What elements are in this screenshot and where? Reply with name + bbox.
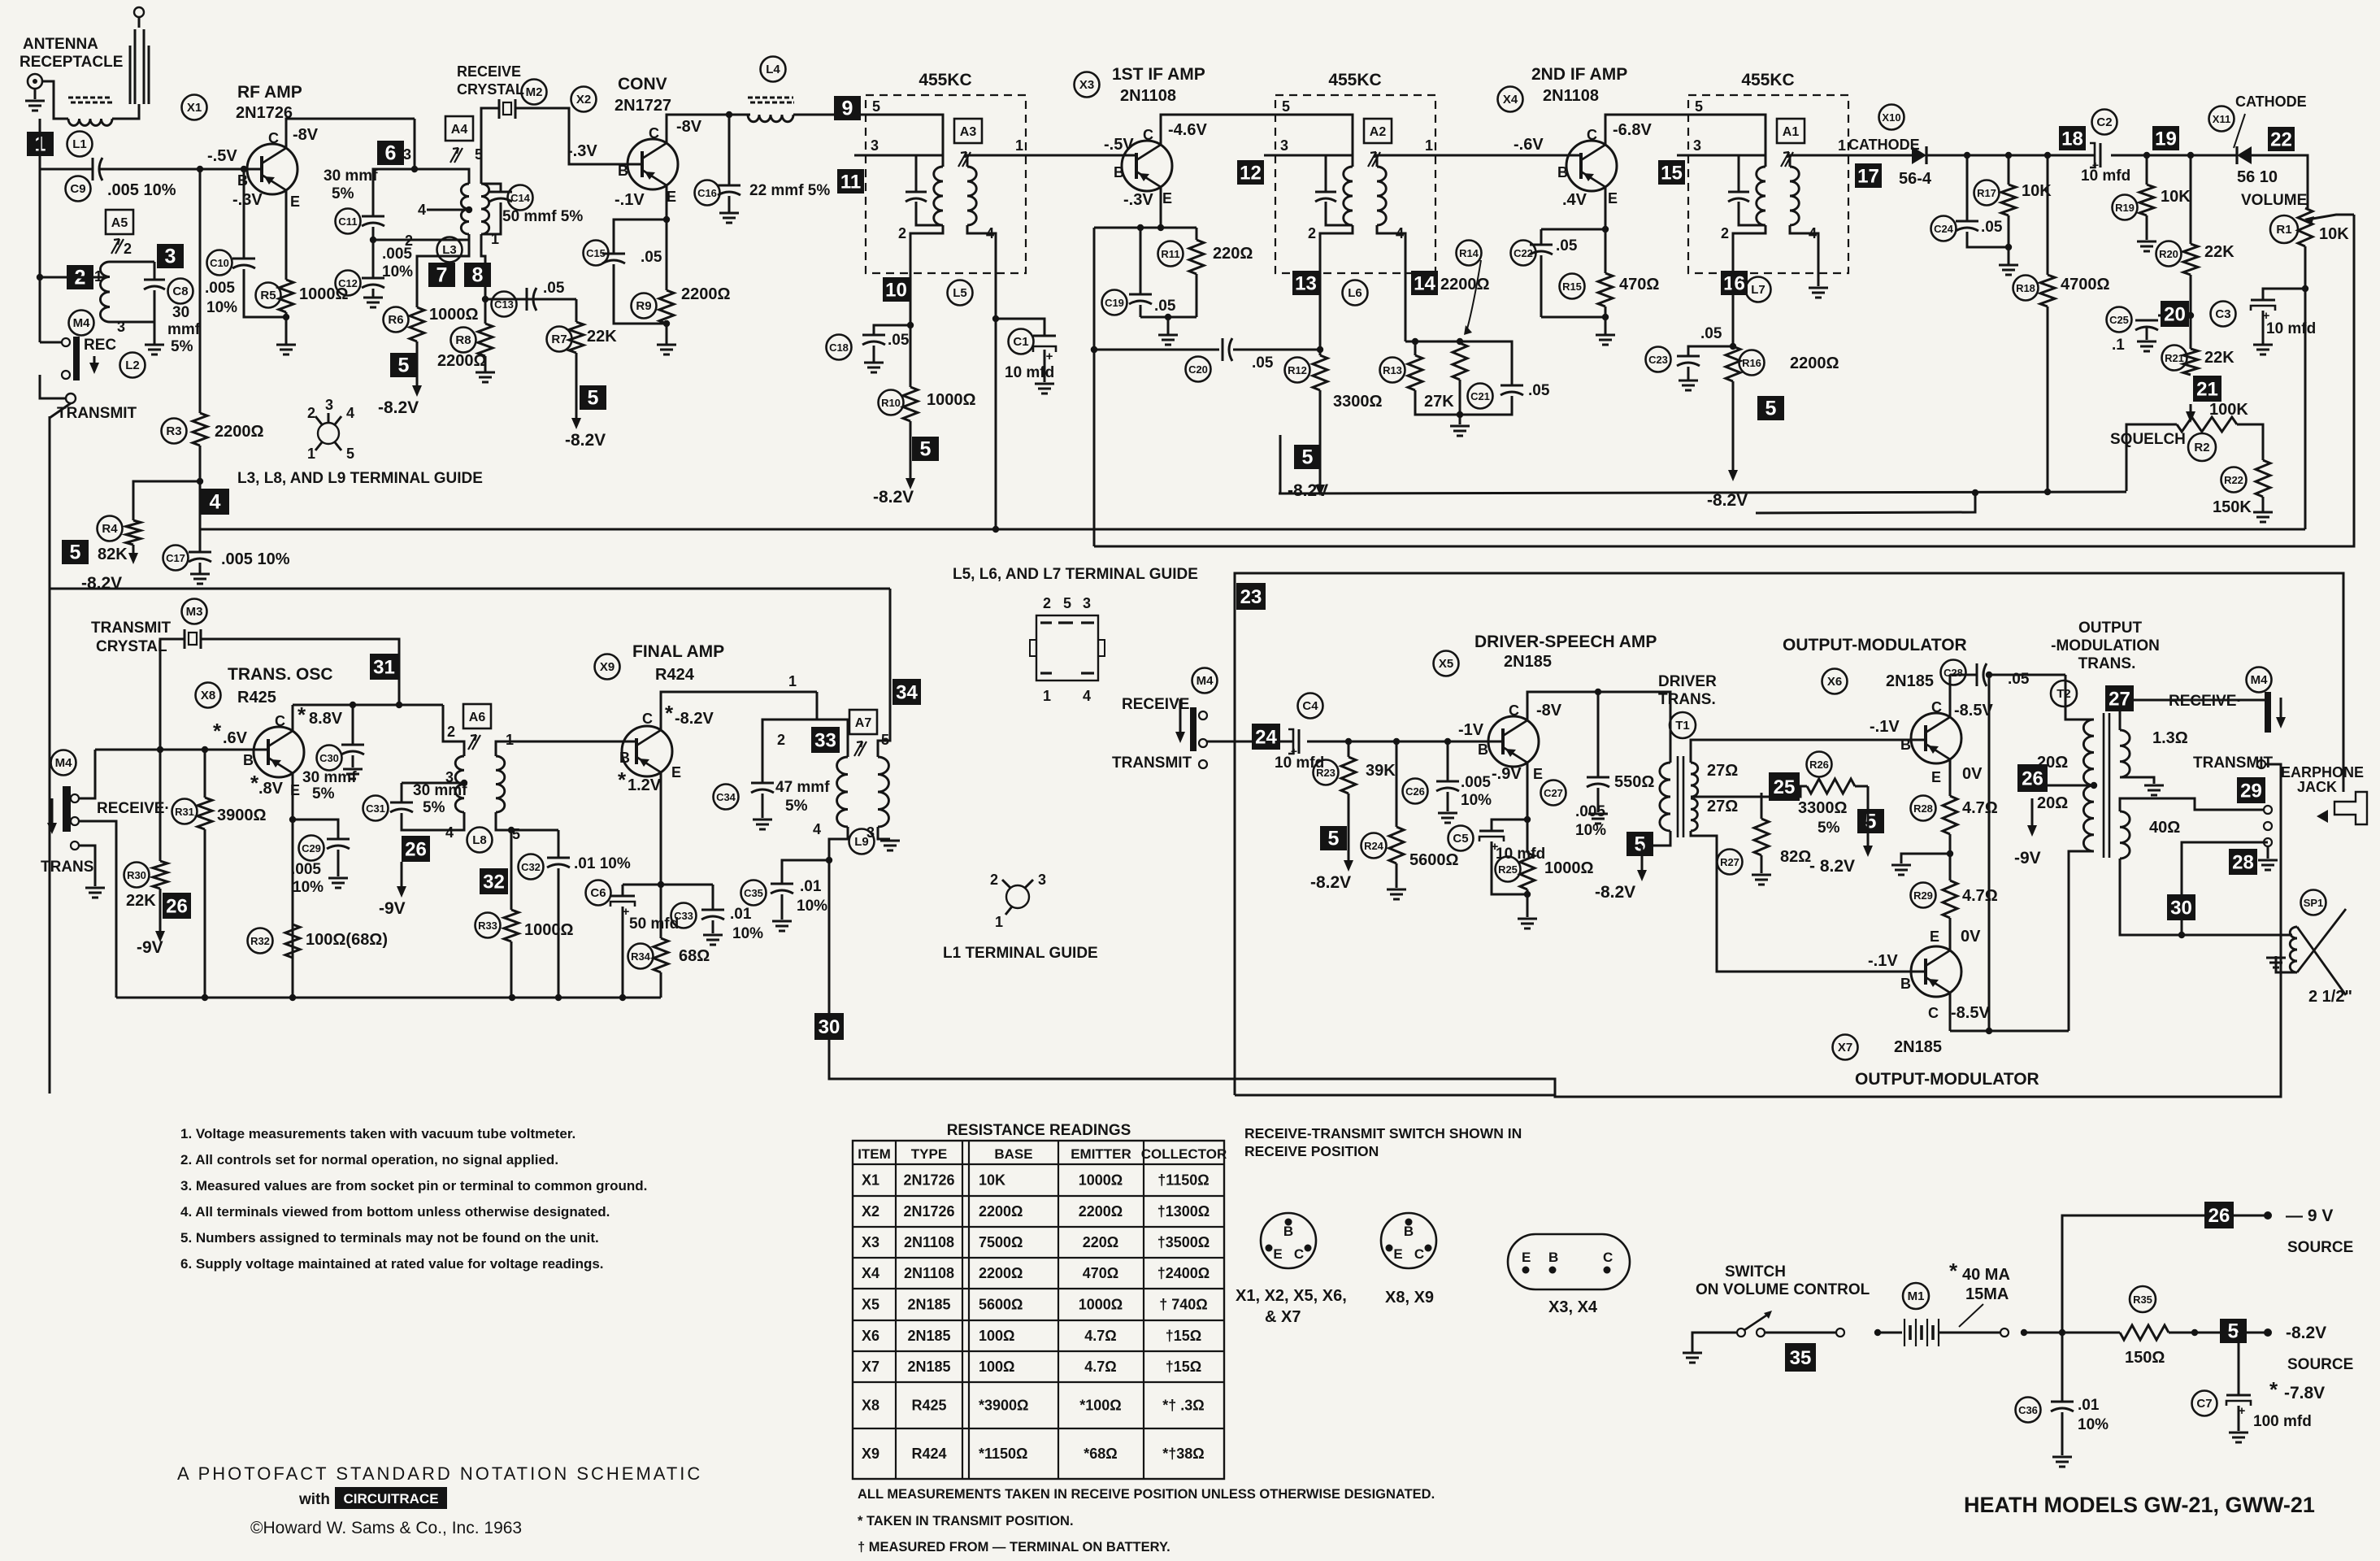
wire C11 branch <box>373 169 415 216</box>
box A4 <box>445 116 473 141</box>
wire T2 primary top <box>2065 675 2094 720</box>
ref R13 <box>1380 358 1405 383</box>
svg-text:.005: .005 <box>1575 803 1605 820</box>
ground R27 <box>1752 874 1771 876</box>
socket X3 X4 oval <box>1508 1234 1630 1289</box>
svg-text:.005: .005 <box>1461 774 1491 791</box>
wire X5 collector <box>1527 692 1670 763</box>
capacitor C2 electrolytic <box>2100 143 2102 167</box>
wire flag1 down-left bus <box>39 119 41 342</box>
wire L7 primary feed <box>1739 155 1765 167</box>
wire X3 emitter <box>1160 187 1162 228</box>
ground C18 <box>873 346 875 363</box>
svg-text:C: C <box>642 711 653 727</box>
ref C27 <box>1541 780 1566 806</box>
resistor R24 <box>1389 827 1404 863</box>
ref C30 <box>317 746 342 771</box>
svg-text:B: B <box>1404 1224 1414 1239</box>
wire X3 collector <box>1161 115 1287 145</box>
trimmer A3 <box>958 152 971 167</box>
wire R13 R14 rail <box>1405 341 1460 343</box>
svg-text:6: 6 <box>385 142 397 165</box>
wire X8 emitter <box>292 773 294 998</box>
wire L6 secondary bottom out <box>1377 225 1405 273</box>
ref C20 <box>1186 357 1211 382</box>
svg-text:R12: R12 <box>1288 364 1307 376</box>
inductor L6 secondary <box>1377 167 1386 225</box>
svg-text:L5: L5 <box>953 286 967 300</box>
ref C18 <box>827 335 852 360</box>
ref C5 <box>1448 826 1474 851</box>
wire mod box bottom <box>1235 1094 1555 1097</box>
ground C25 <box>2137 341 2156 343</box>
svg-text:22K: 22K <box>2204 243 2235 261</box>
svg-text:2: 2 <box>307 405 315 421</box>
ref L1 <box>67 132 93 157</box>
capacitor C6 electrolytic <box>622 885 624 896</box>
svg-text:18: 18 <box>2061 128 2083 150</box>
svg-text:TRANS.: TRANS. <box>2078 655 2136 672</box>
wire T2 sec2 to jack <box>2120 798 2264 811</box>
ref C3 <box>2211 302 2236 327</box>
resistor R33 <box>504 910 519 941</box>
ref X1 <box>182 95 207 120</box>
ground TRANS <box>79 846 95 886</box>
resistor R32 <box>285 924 300 958</box>
ground R19 <box>2137 241 2156 243</box>
ref R30 <box>124 863 150 888</box>
wire R9 ground <box>666 324 668 345</box>
svg-text:17: 17 <box>1857 166 1879 188</box>
ref T2 <box>2051 680 2077 707</box>
svg-text:C: C <box>1294 1246 1304 1262</box>
svg-text:-.5V: -.5V <box>1104 136 1134 154</box>
ref L5 <box>948 280 973 306</box>
svg-text:X7: X7 <box>862 1359 879 1375</box>
svg-text:1000Ω: 1000Ω <box>1079 1297 1123 1313</box>
svg-text:4: 4 <box>346 405 354 421</box>
capacitor inside L7 <box>1728 191 1749 193</box>
ref X11 <box>2209 107 2235 132</box>
resistor R25 <box>1520 853 1535 889</box>
wire L6 primary bottom out <box>1320 225 1353 273</box>
resistor R31 <box>198 798 212 829</box>
svg-text:E: E <box>290 193 300 210</box>
wire R7 <box>575 299 578 322</box>
ground R14 <box>1450 425 1470 428</box>
svg-text:39K: 39K <box>1366 762 1396 780</box>
svg-text:25: 25 <box>1774 776 1796 798</box>
wire T1 sec tap <box>1694 786 1807 797</box>
svg-text:C: C <box>1143 127 1153 143</box>
node 5 flag R23 <box>1320 826 1347 850</box>
svg-text:5: 5 <box>1765 398 1777 420</box>
svg-text:5: 5 <box>1695 98 1703 115</box>
svg-text:*: * <box>213 719 222 743</box>
wire L5 pin1 to X3 base <box>1026 154 1136 157</box>
ground X4 emitter <box>1596 334 1615 337</box>
svg-text:21: 21 <box>2196 379 2218 401</box>
ref X4 <box>1498 87 1523 112</box>
ref C21 <box>1468 384 1493 409</box>
wire L1 to mast <box>112 104 139 119</box>
svg-text:470Ω: 470Ω <box>1083 1265 1118 1281</box>
svg-text:-6.8V: -6.8V <box>1613 121 1652 139</box>
svg-text:100K: 100K <box>2209 401 2248 419</box>
wire T1 sec top to X6 base <box>1691 740 1926 763</box>
ref L2 <box>120 353 145 378</box>
resistor R35 <box>2120 1325 2169 1340</box>
svg-text:C: C <box>1931 699 1942 715</box>
svg-text:RESISTANCE READINGS: RESISTANCE READINGS <box>947 1122 1131 1139</box>
ground X3 emitter <box>1167 317 1170 335</box>
svg-text:2: 2 <box>1721 225 1729 241</box>
svg-text:.05: .05 <box>1700 325 1722 342</box>
diode X10 <box>1912 146 1926 164</box>
capacitor C4 electrolytic <box>1298 729 1301 754</box>
ref L3 <box>437 237 463 263</box>
ref C6 <box>586 881 611 906</box>
svg-text:4: 4 <box>210 491 221 514</box>
svg-text:B: B <box>1478 741 1488 758</box>
ref C29 <box>299 836 324 861</box>
inductor L7 secondary <box>1790 167 1799 225</box>
svg-text:X1: X1 <box>862 1172 879 1189</box>
wire R6 bottom <box>416 341 419 354</box>
transistor X6 <box>1911 713 1961 763</box>
wire X5 emitter <box>1527 763 1529 820</box>
svg-text:5: 5 <box>1063 595 1071 611</box>
svg-text:R20: R20 <box>2159 248 2178 260</box>
svg-text:C: C <box>1587 127 1597 143</box>
node 15 flag <box>1658 160 1685 185</box>
wire L5 primary bottom out <box>910 225 943 273</box>
svg-text:X1, X2, X5, X6,: X1, X2, X5, X6, <box>1236 1287 1347 1305</box>
ref C17 <box>163 546 189 571</box>
svg-text:E: E <box>1162 190 1172 207</box>
resistor R27 <box>1754 819 1769 855</box>
svg-text:C21: C21 <box>1470 390 1490 402</box>
wire X4 emitter <box>1605 187 1607 229</box>
resistor R7 <box>569 322 584 353</box>
box A1 <box>1777 119 1805 143</box>
transformer T2 sec bottom <box>2120 811 2130 859</box>
svg-text:SWITCH: SWITCH <box>1725 1263 1786 1281</box>
svg-text:X8: X8 <box>201 689 215 702</box>
ref L9 <box>849 829 875 854</box>
svg-text:C10: C10 <box>210 257 229 269</box>
wire battery to R35 <box>2021 1329 2027 1336</box>
svg-text:550Ω: 550Ω <box>1614 773 1654 791</box>
wire R35 to terminal <box>2169 1332 2265 1334</box>
svg-text:2ND IF AMP: 2ND IF AMP <box>1531 65 1627 84</box>
svg-text:X3: X3 <box>862 1234 879 1250</box>
resistor R8 <box>478 324 493 356</box>
svg-text:220Ω: 220Ω <box>1213 245 1253 263</box>
svg-text:.05: .05 <box>1556 237 1578 254</box>
svg-text:-4.6V: -4.6V <box>1168 121 1207 139</box>
ref C14 <box>508 185 533 211</box>
svg-text:†2400Ω: †2400Ω <box>1157 1265 1210 1281</box>
capacitor C10 <box>232 258 255 260</box>
wire C9 to base <box>100 168 262 171</box>
svg-text:RF AMP: RF AMP <box>237 83 302 102</box>
trimmer A7 <box>854 741 866 756</box>
svg-text:2N185: 2N185 <box>907 1297 950 1313</box>
svg-text:100Ω: 100Ω <box>979 1328 1014 1344</box>
svg-text:2. All controls set for norma: 2. All controls set for normal operation… <box>180 1152 558 1167</box>
wire T2 sec top out <box>2120 700 2268 730</box>
svg-text:SP1: SP1 <box>2304 897 2324 909</box>
svg-text:L2: L2 <box>125 359 140 372</box>
svg-text:2200Ω: 2200Ω <box>681 285 731 303</box>
svg-text:X3: X3 <box>1079 78 1094 92</box>
svg-text:-1V: -1V <box>1458 721 1484 739</box>
transformer T2 sec top <box>2120 730 2130 777</box>
capacitor C27 <box>1597 692 1600 777</box>
svg-text:2: 2 <box>990 872 998 888</box>
svg-text:C29: C29 <box>302 842 321 854</box>
svg-text:RECEIVE·: RECEIVE· <box>2169 693 2242 710</box>
capacitor C33 <box>712 885 714 910</box>
svg-text:C20: C20 <box>1188 363 1208 376</box>
svg-text:10%: 10% <box>797 898 827 915</box>
node 30 flag <box>814 1013 844 1040</box>
wire R3 to junction <box>199 446 202 551</box>
svg-text:C13: C13 <box>494 298 514 311</box>
svg-text:E: E <box>1608 190 1618 207</box>
svg-text:X9: X9 <box>600 660 615 674</box>
wire R26 right <box>1855 785 1868 788</box>
svg-text:B: B <box>1548 1250 1558 1265</box>
node 5 flag R10 <box>912 437 939 461</box>
ref R17 <box>1974 180 2000 206</box>
ground R8 <box>476 372 495 374</box>
arrow R7 <box>575 385 578 420</box>
svg-text:TRANS: TRANS <box>41 859 93 876</box>
svg-text:.05: .05 <box>1252 354 1274 372</box>
wire bus AVC B-minus <box>200 528 2305 531</box>
svg-text:-8.2V: -8.2V <box>2286 1324 2326 1342</box>
svg-text:†15Ω: †15Ω <box>1166 1359 1201 1375</box>
svg-text:L7: L7 <box>1751 283 1765 297</box>
svg-text:2N185: 2N185 <box>1886 672 1934 690</box>
svg-text:C3: C3 <box>2215 307 2230 321</box>
svg-text:OUTPUT-MODULATOR: OUTPUT-MODULATOR <box>1783 636 1967 654</box>
ground R24 <box>1387 889 1406 891</box>
svg-text:1: 1 <box>1015 137 1023 154</box>
svg-text:L3, L8, AND L9 TERMINAL GUIDE: L3, L8, AND L9 TERMINAL GUIDE <box>237 470 483 487</box>
svg-text:R19: R19 <box>2115 202 2135 214</box>
wire R29 to X7 emitter <box>1949 918 1952 950</box>
svg-text:13: 13 <box>1295 273 1317 295</box>
ref R28 <box>1911 796 1936 821</box>
capacitor C23 <box>1688 346 1733 356</box>
svg-text:† MEASURED FROM — TERMINAL ON: † MEASURED FROM — TERMINAL ON BATTERY. <box>858 1540 1170 1554</box>
arrow R6 <box>416 354 419 387</box>
svg-text:C5: C5 <box>1453 832 1468 846</box>
wire L7 secondary top to pin1 <box>1790 155 1848 167</box>
capacitor C28 <box>1976 663 1978 686</box>
ref T1 <box>1670 712 1696 738</box>
capacitor C26 <box>1447 741 1449 781</box>
wire R26 to flag5 <box>1867 786 1870 836</box>
svg-text:X11: X11 <box>2213 113 2230 125</box>
svg-text:40Ω: 40Ω <box>2149 819 2180 837</box>
ref R9 <box>632 294 657 319</box>
wire L9 secondary top antenna <box>878 589 890 757</box>
dashed box IF can L5 <box>866 95 1026 273</box>
svg-text:-.1V: -.1V <box>615 191 645 209</box>
svg-text:82K: 82K <box>98 546 128 563</box>
wire antenna to L1 <box>42 81 68 119</box>
resistor R10 <box>903 387 918 421</box>
wire mod loop P <box>829 764 2281 1097</box>
svg-text:-9V: -9V <box>2014 849 2041 867</box>
svg-text:C11: C11 <box>338 215 357 228</box>
svg-text:2N1727: 2N1727 <box>615 97 671 115</box>
switch M4 transmit bar <box>63 786 71 832</box>
wire bus squelch L1 <box>1279 492 2126 494</box>
capacitor C9 <box>92 158 94 180</box>
svg-text:C4: C4 <box>1302 699 1318 713</box>
svg-text:B: B <box>1900 976 1911 992</box>
wire C31 bottom pin4 <box>402 812 464 830</box>
svg-text:3300Ω: 3300Ω <box>1333 393 1383 411</box>
svg-text:4: 4 <box>813 821 821 837</box>
wire rec contact <box>40 341 62 344</box>
svg-text:A5: A5 <box>111 216 128 230</box>
svg-text:R25: R25 <box>1498 863 1518 876</box>
wire X9 emitter <box>660 772 662 885</box>
wire X2 emitter <box>666 185 668 220</box>
svg-text:-8.2V: -8.2V <box>378 398 419 417</box>
svg-text:B: B <box>243 752 254 768</box>
transistor X7 <box>1911 946 1961 997</box>
trimmer A5 <box>111 239 124 254</box>
svg-text:CATHODE: CATHODE <box>2235 93 2307 110</box>
svg-text:R24: R24 <box>1364 840 1384 852</box>
wire base bias <box>243 169 245 259</box>
svg-text:68Ω: 68Ω <box>679 947 710 965</box>
svg-text:10 mfd: 10 mfd <box>1005 364 1054 381</box>
svg-text:L6: L6 <box>1348 286 1362 300</box>
svg-text:R4: R4 <box>102 522 118 536</box>
svg-text:10K: 10K <box>2319 225 2349 243</box>
ref R1 <box>2270 215 2298 243</box>
svg-text:.005 10%: .005 10% <box>221 550 290 568</box>
wire C35 branch <box>782 860 829 884</box>
wire L9 secondary bottom ground <box>878 827 890 839</box>
wire X2 collector <box>667 115 750 143</box>
node 4 flag <box>201 489 229 515</box>
wire L8 secondary bottom <box>496 812 558 830</box>
node 18 flag <box>2059 126 2086 150</box>
ref C25 <box>2107 307 2132 333</box>
svg-text:-8.2V: -8.2V <box>81 574 122 593</box>
svg-text:X4: X4 <box>862 1265 879 1281</box>
svg-text:C6: C6 <box>590 886 606 900</box>
wire T2 sec top bottom end <box>2120 777 2154 784</box>
socket X8 group <box>1381 1213 1436 1268</box>
ref C36 <box>2016 1398 2041 1423</box>
antenna mast <box>138 17 141 28</box>
resistor R22 <box>2256 460 2270 497</box>
svg-text:R13: R13 <box>1383 364 1402 376</box>
svg-text:5%: 5% <box>312 785 335 802</box>
svg-text:2: 2 <box>124 241 132 257</box>
svg-text:-.6V: -.6V <box>1514 136 1544 154</box>
svg-text:R424: R424 <box>911 1446 946 1462</box>
svg-text:455KC: 455KC <box>1328 71 1381 89</box>
wire R28 R29 <box>1949 834 1952 881</box>
svg-text:-8.2V: -8.2V <box>565 431 606 450</box>
svg-text:*: * <box>665 701 674 725</box>
svg-text:4: 4 <box>418 202 426 218</box>
svg-text:M4: M4 <box>1197 674 1214 688</box>
terminal transmit out <box>2257 760 2265 768</box>
svg-text:100Ω(68Ω): 100Ω(68Ω) <box>306 931 388 949</box>
svg-text:455KC: 455KC <box>1741 71 1794 89</box>
inductor L1 <box>68 119 112 125</box>
wire R18 <box>2047 155 2049 275</box>
inductor L8 secondary <box>496 756 505 812</box>
svg-text:.01: .01 <box>2078 1397 2100 1414</box>
svg-text:-.1V: -.1V <box>1868 952 1898 970</box>
svg-text:-9V: -9V <box>379 899 406 918</box>
node 30 flag SP1 <box>2167 894 2195 920</box>
svg-text:-8.5V: -8.5V <box>1954 702 1993 720</box>
svg-text:-MODULATION: -MODULATION <box>2051 637 2160 654</box>
inductor L4 <box>748 115 793 122</box>
wire -9V branch <box>2062 1215 2204 1333</box>
svg-text:27Ω: 27Ω <box>1707 762 1738 780</box>
transistor X8 <box>254 727 304 777</box>
svg-text:— 9 V: — 9 V <box>2286 1207 2333 1225</box>
inductor L3 primary <box>461 184 469 234</box>
wire X3 emitter rail <box>1094 227 1177 229</box>
wire cap bottom L6 <box>1326 202 1353 225</box>
terminal TRANSMIT <box>66 394 76 403</box>
wire cap bottom L7 <box>1739 202 1765 225</box>
node 14 flag <box>1411 271 1438 295</box>
svg-text:34: 34 <box>896 682 918 704</box>
svg-text:5: 5 <box>1328 828 1340 850</box>
svg-text:1ST IF AMP: 1ST IF AMP <box>1112 65 1205 84</box>
ref C15 <box>584 241 609 266</box>
node 10 flag <box>883 277 910 302</box>
ref R14 <box>1457 241 1482 266</box>
wiper R1 <box>2304 216 2314 224</box>
node 3 flag <box>157 244 184 268</box>
transformer T1 secondary <box>1691 763 1698 797</box>
resistor R13 <box>1408 355 1422 390</box>
svg-text:2200Ω: 2200Ω <box>1440 276 1490 294</box>
trimmer A6 <box>468 735 480 750</box>
ref R31 <box>172 799 198 824</box>
ref R8 <box>451 328 476 353</box>
capacitor inside L5 <box>906 191 927 193</box>
svg-text:T1: T1 <box>1675 719 1690 733</box>
capacitor C1 electrolytic <box>1033 335 1056 337</box>
ref R20 <box>2156 241 2182 267</box>
node 16 flag <box>1721 271 1748 295</box>
svg-text:B: B <box>1283 1224 1293 1239</box>
svg-text:5: 5 <box>2228 1320 2239 1343</box>
svg-text:X3, X4: X3, X4 <box>1548 1298 1598 1316</box>
resistor R28 <box>1943 796 1957 834</box>
svg-text:22K: 22K <box>126 892 156 910</box>
